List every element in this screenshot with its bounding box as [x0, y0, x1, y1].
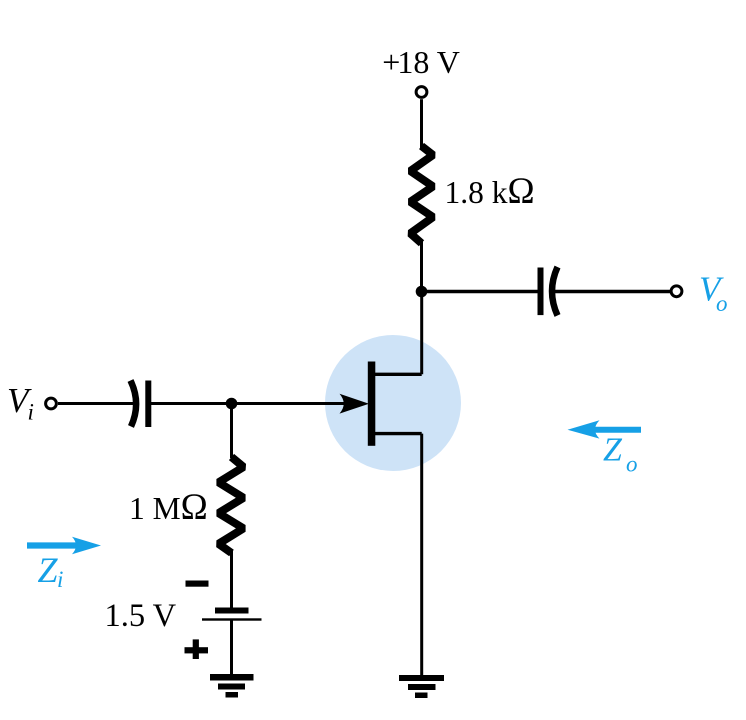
battery VGG 1.5 V: [202, 608, 262, 621]
svg-text:1.8 kΩ: 1.8 kΩ: [445, 170, 535, 211]
label Zo: [603, 432, 638, 477]
wire drain lead up to node: [420, 292, 423, 375]
supply terminal +18 V: [416, 87, 427, 98]
ground (battery side): [210, 674, 254, 698]
capacitor Co (output coupling): [538, 267, 558, 316]
battery plus label: [185, 639, 209, 659]
wire Co to output terminal: [555, 290, 670, 293]
label Vi: [7, 381, 34, 425]
wire supply to RD: [420, 99, 423, 148]
svg-text:i: i: [57, 567, 63, 592]
svg-text:Z: Z: [38, 550, 59, 590]
transistor highlight circle: [325, 335, 461, 471]
wire source lead down to ground: [420, 434, 423, 677]
impedance arrow Zi: [27, 537, 101, 554]
impedance arrow Zo: [568, 420, 642, 438]
svg-text:+18 V: +18 V: [382, 44, 460, 80]
wire input terminal to Ci: [58, 402, 133, 405]
svg-text:1 MΩ: 1 MΩ: [129, 486, 208, 527]
node drain junction: [416, 286, 428, 298]
label Zi: [38, 550, 64, 592]
value label 1 MOhm: [129, 486, 208, 527]
label Vo: [699, 270, 728, 317]
ground (source side): [399, 675, 444, 698]
resistor RD 1.8 kOhm: [410, 146, 433, 243]
svg-text:o: o: [716, 291, 728, 316]
wire Ci to gate (through gate node): [151, 402, 349, 405]
JFET Q1 source lead: [373, 432, 422, 435]
battery minus label: [186, 581, 209, 587]
input terminal Vi: [46, 398, 57, 409]
resistor RG 1 MOhm: [219, 457, 244, 553]
label +18 V: [382, 44, 460, 80]
JFET Q1 gate arrowhead: [340, 394, 370, 414]
capacitor Ci (input coupling): [131, 381, 152, 428]
value label 1.8 kOhm: [445, 170, 535, 211]
JFET Q1 channel bar: [368, 362, 376, 446]
node gate junction: [226, 398, 238, 410]
wire drain node to output capacitor: [422, 290, 538, 293]
JFET Q1 drain lead: [373, 373, 422, 376]
wire RG to battery: [230, 551, 233, 609]
svg-text:i: i: [28, 400, 34, 425]
svg-text:1.5 V: 1.5 V: [105, 598, 177, 634]
output terminal Vo: [671, 286, 682, 297]
value label 1.5 V: [105, 598, 177, 634]
svg-text:Z: Z: [603, 432, 623, 469]
svg-text:o: o: [626, 452, 638, 477]
wire gate node to RG: [230, 404, 233, 459]
wire battery to ground: [230, 620, 233, 676]
wire RD to drain node: [420, 241, 423, 292]
